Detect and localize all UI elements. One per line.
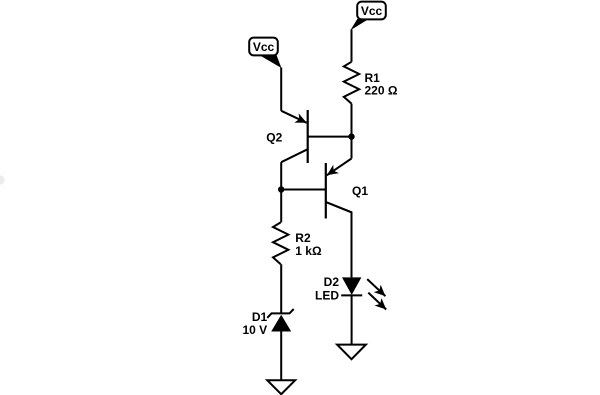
- LED D2: [315, 275, 362, 303]
- wire: R1 to node A: [351, 104, 353, 137]
- transistor Q1 (PNP): [326, 159, 369, 219]
- LED light arrow 2: [368, 293, 386, 310]
- svg-text:R1: R1: [365, 71, 381, 85]
- svg-text:Vcc: Vcc: [253, 40, 275, 54]
- wire: left Vcc to Q2 emitter: [280, 68, 282, 111]
- wire: Q1 base to node B: [281, 189, 326, 191]
- svg-text:10 V: 10 V: [243, 323, 268, 337]
- power flag Vcc right: [350, 2, 385, 31]
- svg-text:1 kΩ: 1 kΩ: [295, 244, 322, 258]
- resistor R1 220 ohm: [344, 62, 398, 104]
- wire: Q1 collector to D2: [326, 202, 352, 277]
- svg-text:Q1: Q1: [352, 184, 368, 198]
- wire: D1 to left ground: [280, 332, 282, 381]
- svg-text:R2: R2: [295, 231, 311, 245]
- LED light arrow 1: [367, 279, 385, 296]
- ground (right): [337, 345, 366, 360]
- transistor Q2 (PNP): [266, 110, 307, 163]
- svg-text:Vcc: Vcc: [361, 4, 383, 18]
- node B junction dot: [278, 186, 284, 192]
- wire: right Vcc to R1: [351, 30, 353, 62]
- wire: Q2 collector down to node B / R2: [280, 162, 282, 222]
- ground (left): [267, 380, 295, 394]
- svg-text:Q2: Q2: [266, 131, 282, 145]
- svg-text:D1: D1: [252, 310, 268, 324]
- resistor R2 1 kohm: [273, 222, 322, 264]
- wire: D2 to right ground: [351, 295, 353, 344]
- power flag Vcc left: [249, 38, 281, 68]
- wire: node A to Q1 emitter: [351, 137, 353, 159]
- wire: Q2 base to node A: [308, 136, 352, 138]
- zener diode D1 10V: [243, 309, 294, 337]
- svg-text:LED: LED: [315, 288, 339, 302]
- node A junction dot: [348, 133, 354, 139]
- wire: R2 to D1: [280, 264, 282, 313]
- svg-text:D2: D2: [324, 275, 340, 289]
- svg-text:220 Ω: 220 Ω: [365, 84, 398, 98]
